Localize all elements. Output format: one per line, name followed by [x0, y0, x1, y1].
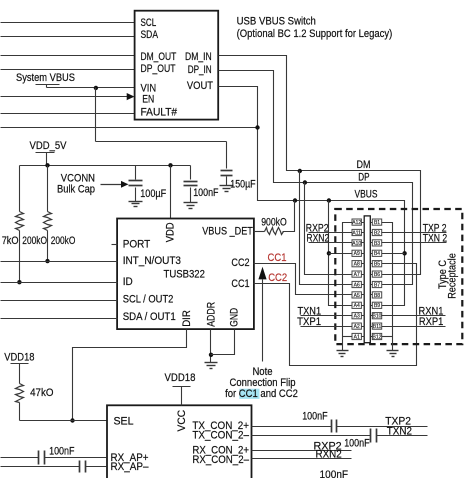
wire PORT stub	[112, 244, 118, 246]
svg-text:A6: A6	[354, 282, 360, 288]
resistor R1 200kO	[19, 166, 21, 212]
wire TX_CON_2- b	[377, 435, 428, 437]
wire B7 stub	[371, 284, 373, 286]
svg-text:B1: B1	[374, 220, 380, 226]
wire B9 stub	[371, 305, 373, 307]
junction VBUS B4	[402, 251, 406, 255]
svg-text:RXN2: RXN2	[316, 449, 342, 461]
wire CC1 to B5	[254, 264, 417, 366]
wire B3 stub	[371, 242, 373, 244]
svg-text:TXN2: TXN2	[387, 425, 412, 437]
wire RX_CON_2+	[252, 450, 352, 452]
USB VBUS switch U2 box	[135, 11, 219, 120]
svg-text:VDD_5V: VDD_5V	[30, 140, 68, 152]
junction VBUS left tap	[327, 198, 331, 202]
svg-text:100nF: 100nF	[344, 437, 370, 449]
wire TXP1 stub	[301, 326, 353, 328]
svg-text:TX_CON_2–: TX_CON_2–	[192, 430, 249, 442]
svg-text:DM_IN: DM_IN	[185, 51, 212, 63]
pin box B4	[372, 250, 381, 256]
wire DM to A6	[300, 171, 353, 285]
svg-text:FAULT#: FAULT#	[141, 106, 178, 118]
pin box B3	[372, 240, 381, 246]
wire RXN1 stub	[382, 315, 446, 317]
svg-text:B6: B6	[374, 272, 380, 278]
svg-text:DP_IN: DP_IN	[188, 64, 212, 76]
junction R2 INT	[45, 259, 49, 263]
wire B4 stub	[371, 253, 373, 255]
wire TXN1 stub	[301, 315, 353, 317]
svg-text:DP_OUT: DP_OUT	[141, 63, 176, 75]
wire RXP2 stub	[309, 232, 353, 234]
svg-text:SCL / OUT2: SCL / OUT2	[123, 294, 174, 306]
wire EN	[1, 96, 129, 98]
wire VCC drop	[181, 387, 183, 406]
wire DIR to SEL	[73, 330, 187, 421]
svg-text:B11: B11	[373, 324, 382, 330]
resistor R4 47kO	[19, 364, 21, 384]
pin box A9	[352, 250, 361, 256]
pin box B2	[372, 229, 381, 235]
svg-text:150µF: 150µF	[230, 178, 256, 190]
svg-text:RXN2: RXN2	[306, 233, 329, 245]
svg-text:100nF: 100nF	[302, 411, 328, 423]
wire CC2 to A5	[254, 264, 353, 295]
wire TXN2 stub	[382, 242, 447, 244]
svg-text:Receptacle: Receptacle	[447, 253, 459, 299]
svg-text:A9: A9	[354, 251, 360, 257]
pin box A6	[352, 281, 361, 287]
svg-text:A2: A2	[354, 324, 360, 330]
wire VBUS to A9 A4	[329, 201, 353, 306]
svg-text:A10: A10	[352, 241, 361, 247]
wire FAULT#	[1, 113, 135, 115]
wire RX_AP- right	[86, 466, 107, 468]
wire B12 stub	[371, 336, 373, 338]
capacitor C3 150uF	[226, 142, 228, 169]
capacitor C1 100uF	[135, 166, 137, 180]
pin box B12	[372, 333, 381, 339]
wire B1 stub	[371, 222, 373, 224]
svg-text:B12: B12	[373, 334, 382, 340]
wire GND pin	[211, 330, 235, 355]
svg-text:A3: A3	[354, 314, 360, 320]
svg-text:B9: B9	[374, 303, 380, 309]
connector tongue	[364, 216, 370, 343]
wire RX_AP- left	[1, 466, 80, 468]
ground C2	[184, 202, 198, 204]
wire INT_N/OUT3	[1, 261, 118, 263]
wire SEL	[20, 420, 107, 422]
svg-text:CC2: CC2	[231, 257, 249, 269]
pin box A3	[352, 313, 361, 319]
arrow into EN	[127, 93, 135, 100]
svg-text:CC1: CC1	[268, 252, 287, 264]
svg-text:VBUS: VBUS	[355, 189, 378, 201]
svg-text:INT_N/OUT3: INT_N/OUT3	[123, 255, 181, 267]
junction rail VDD	[168, 163, 172, 167]
wire A6 stub	[362, 284, 365, 286]
wire B8 stub	[371, 294, 373, 296]
svg-text:B3: B3	[374, 241, 380, 247]
svg-text:ADDR: ADDR	[205, 302, 217, 327]
note highlight CC1	[239, 389, 259, 399]
arrow VCONN	[101, 184, 122, 186]
svg-text:ID: ID	[123, 276, 133, 288]
connector J1 dashed box	[335, 209, 462, 344]
svg-text:200kO: 200kO	[22, 235, 47, 247]
ground C3	[220, 185, 234, 187]
svg-text:TUSB322: TUSB322	[164, 269, 205, 281]
svg-text:A1: A1	[354, 334, 360, 340]
wire A3 stub	[362, 315, 365, 317]
svg-text:PORT: PORT	[123, 239, 151, 251]
junction System VBUS	[94, 86, 98, 90]
svg-text:DIR: DIR	[181, 310, 193, 327]
ground A-side	[337, 350, 349, 352]
svg-text:VDD18: VDD18	[4, 352, 34, 364]
svg-text:DM_OUT: DM_OUT	[141, 51, 177, 63]
wire System VBUS drop	[95, 88, 97, 142]
capacitor C2 100nF	[190, 166, 192, 180]
pin box B7	[372, 281, 381, 287]
svg-text:A11: A11	[352, 230, 361, 236]
svg-text:B8: B8	[374, 293, 380, 299]
wire RX_AP+ left	[1, 457, 39, 459]
capacitor C4 100nF	[38, 451, 40, 465]
svg-text:A4: A4	[354, 303, 360, 309]
arrow note pointer	[258, 267, 266, 280]
wire A5 stub	[362, 294, 365, 296]
IC U1 TUSB322 box	[117, 219, 254, 330]
capacitor C5 100nF	[79, 461, 81, 473]
wire B2 stub	[371, 232, 373, 234]
wire DP to A7	[305, 183, 353, 275]
wire ADDR down	[210, 330, 212, 363]
svg-text:CC1: CC1	[231, 278, 249, 290]
svg-text:VDD18: VDD18	[165, 372, 196, 384]
wire SDA/OUT1	[1, 318, 118, 320]
junction DIR SEL	[70, 418, 74, 422]
pin box B1	[372, 219, 381, 225]
wire A-side gnd bus	[343, 223, 353, 351]
junction VBUS 900k tap	[293, 198, 297, 202]
svg-text:Bulk Cap: Bulk Cap	[57, 184, 95, 196]
wire A12 stub	[362, 222, 365, 224]
junction R1 ID	[17, 280, 21, 284]
svg-text:RX_AP–: RX_AP–	[111, 461, 150, 473]
svg-text:RX_CON_2–: RX_CON_2–	[192, 454, 249, 466]
pin box A12	[352, 219, 361, 225]
pin box A5	[352, 292, 361, 298]
pin box A4	[352, 302, 361, 308]
wire SCL/OUT2	[1, 300, 118, 302]
wire note leader	[262, 280, 264, 362]
svg-text:B7: B7	[374, 282, 380, 288]
svg-text:VOUT: VOUT	[187, 80, 213, 92]
svg-text:(Optional BC 1.2 Support for L: (Optional BC 1.2 Support for Legacy)	[237, 28, 393, 40]
svg-text:DM: DM	[357, 159, 371, 171]
pin box A1	[352, 333, 361, 339]
pin box B9	[372, 302, 381, 308]
svg-text:100nF: 100nF	[193, 187, 219, 199]
pin box A8	[352, 261, 361, 267]
svg-text:VCC: VCC	[176, 410, 188, 432]
svg-text:A12: A12	[352, 220, 361, 226]
capacitor C7 100nF	[370, 429, 372, 443]
wire A10 stub	[362, 242, 365, 244]
ground C1	[129, 201, 143, 203]
svg-text:VDD: VDD	[164, 222, 176, 242]
pin box A7	[352, 271, 361, 277]
wire B4 stub	[382, 253, 405, 255]
svg-text:GND: GND	[229, 308, 241, 327]
wire RX_CON_2-	[252, 458, 352, 460]
wire A1 stub	[362, 336, 365, 338]
svg-text:A5: A5	[354, 293, 360, 299]
wire DM_OUT to switch	[1, 55, 135, 57]
wire TXP2 stub	[382, 232, 447, 234]
svg-text:100nF: 100nF	[320, 469, 349, 478]
wire DP net	[219, 71, 413, 285]
svg-text:EN: EN	[142, 94, 154, 106]
wire A2 stub	[362, 326, 365, 328]
wire SCL to switch	[1, 22, 135, 24]
pin box A11	[352, 229, 361, 235]
svg-text:VIN: VIN	[141, 82, 157, 94]
junction DP tap	[303, 180, 307, 184]
wire VDD drop	[170, 166, 172, 219]
wire VOUT rail y127	[1, 127, 258, 129]
wire SDA to switch	[1, 36, 135, 38]
svg-text:CC2: CC2	[268, 272, 287, 284]
svg-text:SDA: SDA	[141, 29, 159, 41]
svg-text:System VBUS: System VBUS	[16, 72, 75, 84]
wire TX_CON_2+ b	[337, 426, 428, 428]
wire 900k up	[283, 201, 295, 232]
svg-text:B4: B4	[374, 251, 380, 257]
svg-text:200kO: 200kO	[51, 235, 76, 247]
IC U3 box	[107, 405, 252, 478]
resistor R2 200kO	[47, 166, 49, 212]
junction DM tap	[298, 169, 302, 173]
svg-text:B2: B2	[374, 230, 380, 236]
pin box B10	[372, 313, 381, 319]
pin box B5	[372, 261, 381, 267]
svg-text:47kO: 47kO	[30, 387, 54, 399]
svg-text:A7: A7	[354, 272, 360, 278]
pin box A2	[352, 323, 361, 329]
ground B-side	[387, 350, 399, 352]
wire RX_AP+ right	[45, 457, 107, 459]
wire RXP1 stub	[382, 326, 446, 328]
wire B6 stub	[371, 274, 373, 276]
svg-text:DP: DP	[358, 172, 369, 184]
svg-text:SCL: SCL	[141, 17, 157, 29]
svg-text:Connection Flip: Connection Flip	[230, 377, 296, 389]
wire VDD_5V rail	[20, 165, 191, 167]
junction ADDR GND	[209, 353, 213, 357]
wire TX_CON_2- a	[252, 435, 371, 437]
junction rail R2	[45, 163, 49, 167]
svg-text:TXP1: TXP1	[297, 316, 321, 328]
svg-text:VBUS _DET: VBUS _DET	[202, 225, 253, 237]
junction VBUS A9	[327, 251, 331, 255]
wire A4 stub	[362, 305, 365, 307]
svg-text:for CC1 and CC2: for CC1 and CC2	[225, 388, 298, 400]
wire B-side gnd bus	[382, 223, 393, 351]
svg-text:USB VBUS Switch: USB VBUS Switch	[237, 16, 316, 28]
capacitor C6 100nF	[331, 420, 333, 433]
junction VOUT y127	[255, 125, 259, 129]
resistor R3 900kO	[265, 228, 284, 235]
svg-text:SEL: SEL	[114, 415, 134, 427]
svg-text:B5: B5	[374, 262, 380, 268]
svg-text:7kO: 7kO	[2, 235, 19, 247]
wire A9 stub	[329, 253, 353, 255]
wire DM net	[219, 56, 421, 275]
svg-text:A8: A8	[354, 262, 360, 268]
svg-text:100µF: 100µF	[140, 188, 166, 200]
wire VIN	[47, 87, 135, 89]
wire B11 stub	[371, 326, 373, 328]
wire VBUS_DET	[254, 231, 265, 233]
svg-text:900kO: 900kO	[261, 216, 287, 228]
ground ADDR	[205, 362, 218, 364]
pin box A10	[352, 240, 361, 246]
svg-text:B10: B10	[373, 314, 382, 320]
wire TX_CON_2+ a	[252, 426, 332, 428]
wire DP_OUT to switch	[1, 69, 135, 71]
pin box B8	[372, 292, 381, 298]
wire ID	[1, 282, 118, 284]
wire RXN2 stub	[309, 242, 353, 244]
wire B5 stub	[371, 263, 373, 265]
wire B10 stub	[371, 315, 373, 317]
wire A9 stub	[362, 253, 365, 255]
wire A7 stub	[362, 274, 365, 276]
wire A11 stub	[362, 232, 365, 234]
wire A8 stub	[362, 263, 365, 265]
svg-text:TXN 2: TXN 2	[423, 233, 447, 245]
svg-text:RXP1: RXP1	[419, 316, 444, 328]
wire VOUT-VBUS net	[219, 87, 405, 306]
pin box B6	[372, 271, 381, 277]
pin box B11	[372, 323, 381, 329]
svg-text:SDA / OUT1: SDA / OUT1	[123, 311, 176, 323]
svg-text:100nF: 100nF	[49, 445, 75, 457]
